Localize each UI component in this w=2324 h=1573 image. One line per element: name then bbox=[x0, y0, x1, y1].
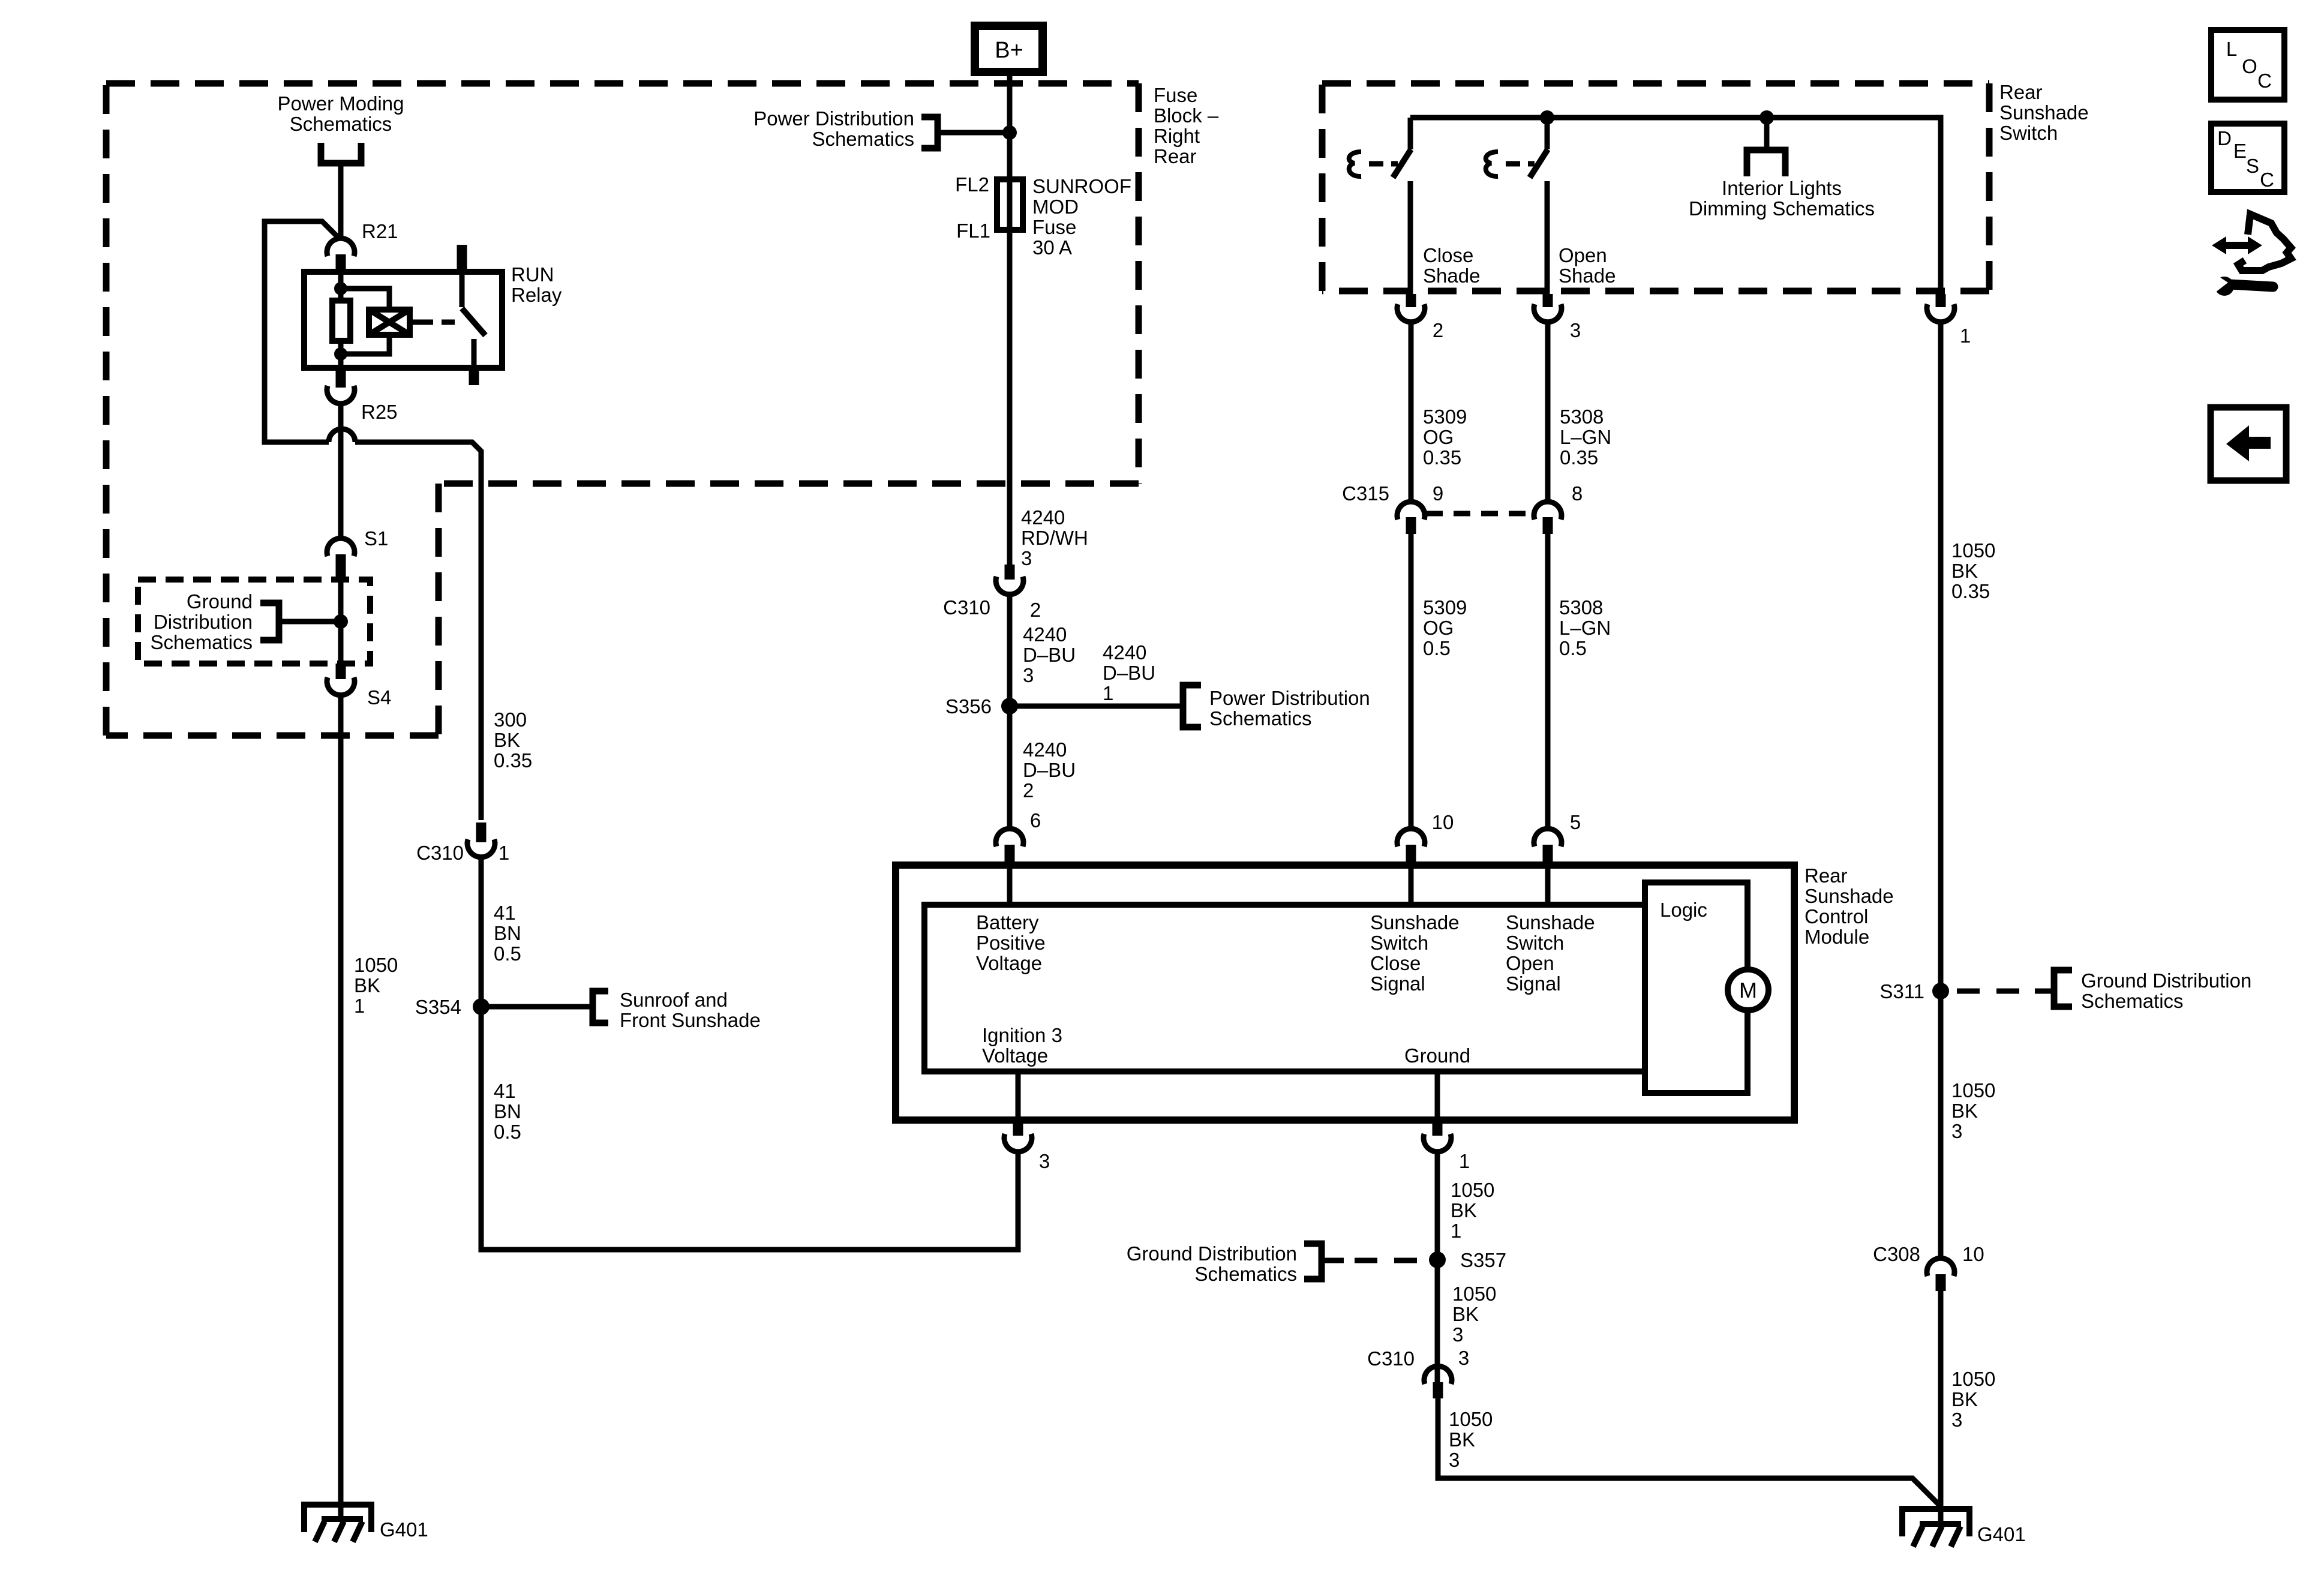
svg-text:RD/WH: RD/WH bbox=[1021, 527, 1088, 549]
svg-text:2: 2 bbox=[1023, 779, 1034, 801]
svg-text:Switch: Switch bbox=[1506, 932, 1564, 954]
svg-text:0.35: 0.35 bbox=[494, 749, 532, 772]
svg-text:1050: 1050 bbox=[354, 954, 398, 976]
svg-text:Open: Open bbox=[1506, 952, 1554, 974]
svg-text:BK: BK bbox=[354, 974, 380, 996]
svg-text:Positive: Positive bbox=[976, 932, 1046, 954]
svg-text:FL1: FL1 bbox=[956, 220, 990, 242]
svg-text:0.35: 0.35 bbox=[1951, 580, 1990, 602]
svg-text:0.5: 0.5 bbox=[1423, 637, 1451, 659]
svg-text:4240: 4240 bbox=[1021, 506, 1065, 529]
svg-text:1: 1 bbox=[1459, 1150, 1470, 1172]
svg-text:0.5: 0.5 bbox=[494, 1121, 521, 1143]
svg-text:3: 3 bbox=[1458, 1347, 1469, 1369]
svg-text:1: 1 bbox=[1960, 325, 1971, 347]
svg-text:Schematics: Schematics bbox=[812, 128, 914, 150]
svg-text:Schematics: Schematics bbox=[1194, 1263, 1297, 1285]
svg-text:5: 5 bbox=[1570, 811, 1581, 833]
svg-text:3: 3 bbox=[1021, 547, 1032, 569]
svg-text:1050: 1050 bbox=[1449, 1408, 1493, 1430]
svg-text:S1: S1 bbox=[364, 527, 388, 550]
svg-text:G401: G401 bbox=[380, 1518, 428, 1541]
svg-text:0.5: 0.5 bbox=[1559, 637, 1587, 659]
svg-text:BK: BK bbox=[494, 729, 520, 751]
svg-text:Sunshade: Sunshade bbox=[1804, 885, 1894, 907]
svg-text:1050: 1050 bbox=[1452, 1283, 1496, 1305]
svg-text:OG: OG bbox=[1423, 426, 1454, 448]
svg-text:Fuse: Fuse bbox=[1154, 84, 1197, 106]
svg-text:3: 3 bbox=[1570, 319, 1581, 341]
svg-text:C: C bbox=[2257, 70, 2272, 92]
svg-text:G401: G401 bbox=[1977, 1523, 2026, 1545]
svg-text:0.35: 0.35 bbox=[1560, 446, 1598, 469]
svg-text:BK: BK bbox=[1449, 1428, 1475, 1451]
svg-text:Interior Lights: Interior Lights bbox=[1722, 177, 1842, 199]
svg-text:SUNROOF: SUNROOF bbox=[1032, 175, 1131, 197]
svg-text:Logic: Logic bbox=[1660, 899, 1707, 921]
svg-text:Power Distribution: Power Distribution bbox=[1209, 687, 1370, 709]
svg-text:Ground Distribution: Ground Distribution bbox=[2081, 969, 2251, 992]
svg-text:1050: 1050 bbox=[1951, 1079, 1995, 1101]
svg-text:Ground: Ground bbox=[1404, 1044, 1470, 1067]
svg-text:M: M bbox=[1739, 978, 1757, 1002]
svg-text:BN: BN bbox=[494, 1100, 521, 1122]
svg-text:RUN: RUN bbox=[511, 263, 554, 286]
svg-text:Ignition 3: Ignition 3 bbox=[982, 1024, 1062, 1046]
svg-text:BK: BK bbox=[1951, 1100, 1978, 1122]
svg-text:3: 3 bbox=[1951, 1120, 1962, 1142]
svg-text:Power Distribution: Power Distribution bbox=[753, 107, 914, 130]
svg-text:BK: BK bbox=[1451, 1199, 1477, 1221]
svg-text:R25: R25 bbox=[361, 401, 398, 423]
svg-text:30 A: 30 A bbox=[1032, 236, 1072, 259]
svg-text:5308: 5308 bbox=[1559, 596, 1603, 619]
svg-text:41: 41 bbox=[494, 1080, 516, 1102]
svg-text:S356: S356 bbox=[945, 695, 992, 718]
svg-text:Sunroof and: Sunroof and bbox=[620, 989, 728, 1011]
svg-text:Voltage: Voltage bbox=[976, 952, 1042, 974]
svg-text:Right: Right bbox=[1154, 125, 1200, 147]
svg-text:S354: S354 bbox=[415, 996, 461, 1018]
svg-text:Switch: Switch bbox=[1370, 932, 1428, 954]
svg-text:4240: 4240 bbox=[1023, 739, 1067, 761]
svg-text:R21: R21 bbox=[362, 220, 398, 242]
svg-text:10: 10 bbox=[1962, 1243, 1984, 1265]
svg-text:S4: S4 bbox=[367, 686, 391, 709]
svg-text:5309: 5309 bbox=[1423, 406, 1467, 428]
svg-text:L–GN: L–GN bbox=[1560, 426, 1611, 448]
svg-text:4240: 4240 bbox=[1023, 623, 1067, 646]
svg-text:Schematics: Schematics bbox=[1209, 707, 1312, 730]
svg-text:2: 2 bbox=[1433, 319, 1443, 341]
svg-text:Schematics: Schematics bbox=[290, 113, 392, 135]
svg-text:Sunshade: Sunshade bbox=[1506, 911, 1595, 933]
svg-text:S357: S357 bbox=[1460, 1249, 1506, 1271]
svg-text:Switch: Switch bbox=[1999, 122, 2058, 144]
svg-text:8: 8 bbox=[1572, 482, 1583, 505]
svg-text:3: 3 bbox=[1039, 1150, 1050, 1172]
svg-text:1050: 1050 bbox=[1451, 1179, 1494, 1201]
svg-text:4240: 4240 bbox=[1103, 641, 1146, 664]
svg-text:3: 3 bbox=[1452, 1323, 1463, 1346]
svg-text:41: 41 bbox=[494, 902, 516, 924]
svg-text:Battery: Battery bbox=[976, 911, 1039, 933]
svg-text:O: O bbox=[2242, 55, 2257, 77]
svg-text:C315: C315 bbox=[1342, 482, 1389, 505]
svg-text:Ground: Ground bbox=[187, 590, 253, 613]
svg-text:B+: B+ bbox=[995, 38, 1023, 63]
svg-text:C310: C310 bbox=[1367, 1347, 1415, 1370]
svg-text:Shade: Shade bbox=[1559, 265, 1616, 287]
svg-text:1: 1 bbox=[354, 995, 365, 1017]
svg-text:Close: Close bbox=[1423, 244, 1473, 266]
svg-text:C: C bbox=[2260, 169, 2274, 191]
svg-text:Power Moding: Power Moding bbox=[278, 92, 404, 115]
svg-text:1050: 1050 bbox=[1951, 539, 1995, 562]
svg-text:Schematics: Schematics bbox=[150, 631, 253, 653]
svg-text:0.35: 0.35 bbox=[1423, 446, 1461, 469]
svg-text:1: 1 bbox=[1103, 682, 1113, 704]
svg-text:Voltage: Voltage bbox=[982, 1044, 1048, 1067]
svg-text:BK: BK bbox=[1452, 1303, 1479, 1325]
svg-text:Close: Close bbox=[1370, 952, 1421, 974]
svg-text:E: E bbox=[2233, 140, 2247, 162]
svg-text:FL2: FL2 bbox=[955, 173, 989, 196]
svg-text:C310: C310 bbox=[416, 842, 464, 864]
svg-text:Sunshade: Sunshade bbox=[1999, 101, 2089, 124]
svg-text:Front Sunshade: Front Sunshade bbox=[620, 1009, 761, 1031]
svg-text:Dimming Schematics: Dimming Schematics bbox=[1689, 197, 1875, 220]
svg-text:0.5: 0.5 bbox=[494, 942, 521, 965]
svg-text:Sunshade: Sunshade bbox=[1370, 911, 1460, 933]
svg-text:Open: Open bbox=[1559, 244, 1607, 266]
svg-text:S: S bbox=[2246, 155, 2259, 177]
svg-text:Fuse: Fuse bbox=[1032, 216, 1076, 238]
svg-text:Module: Module bbox=[1804, 926, 1869, 948]
svg-text:BK: BK bbox=[1951, 1388, 1978, 1410]
svg-text:MOD: MOD bbox=[1032, 196, 1079, 218]
svg-text:L: L bbox=[2226, 38, 2237, 60]
svg-text:Shade: Shade bbox=[1423, 265, 1480, 287]
svg-text:D–BU: D–BU bbox=[1103, 662, 1155, 684]
svg-text:BK: BK bbox=[1951, 560, 1978, 582]
svg-text:3: 3 bbox=[1023, 664, 1034, 686]
svg-text:Block –: Block – bbox=[1154, 104, 1219, 127]
svg-text:5309: 5309 bbox=[1423, 596, 1467, 619]
svg-text:1: 1 bbox=[499, 842, 509, 864]
svg-text:L–GN: L–GN bbox=[1559, 617, 1611, 639]
svg-text:Control: Control bbox=[1804, 905, 1868, 927]
svg-text:Schematics: Schematics bbox=[2081, 990, 2184, 1012]
svg-text:Signal: Signal bbox=[1370, 972, 1425, 995]
svg-text:D–BU: D–BU bbox=[1023, 644, 1076, 666]
svg-text:2: 2 bbox=[1030, 599, 1041, 621]
svg-text:9: 9 bbox=[1433, 482, 1443, 505]
svg-text:C310: C310 bbox=[943, 596, 990, 619]
svg-text:3: 3 bbox=[1951, 1409, 1962, 1431]
svg-text:Rear: Rear bbox=[1154, 145, 1197, 167]
svg-text:Signal: Signal bbox=[1506, 972, 1561, 995]
svg-text:BN: BN bbox=[494, 922, 521, 944]
svg-text:D–BU: D–BU bbox=[1023, 759, 1076, 781]
svg-text:Ground Distribution: Ground Distribution bbox=[1127, 1242, 1297, 1265]
svg-text:5308: 5308 bbox=[1560, 406, 1604, 428]
svg-text:Rear: Rear bbox=[1804, 864, 1848, 887]
svg-text:1: 1 bbox=[1451, 1220, 1461, 1242]
svg-text:3: 3 bbox=[1449, 1449, 1460, 1471]
svg-text:Rear: Rear bbox=[1999, 81, 2043, 103]
svg-text:Distribution: Distribution bbox=[154, 611, 253, 633]
svg-text:S311: S311 bbox=[1879, 980, 1924, 1002]
svg-text:OG: OG bbox=[1423, 617, 1454, 639]
svg-text:1050: 1050 bbox=[1951, 1368, 1995, 1390]
svg-text:Relay: Relay bbox=[511, 284, 562, 306]
svg-text:D: D bbox=[2217, 127, 2232, 149]
svg-text:10: 10 bbox=[1432, 811, 1454, 833]
svg-text:C308: C308 bbox=[1873, 1243, 1920, 1265]
svg-text:300: 300 bbox=[494, 709, 527, 731]
svg-text:6: 6 bbox=[1030, 809, 1041, 831]
